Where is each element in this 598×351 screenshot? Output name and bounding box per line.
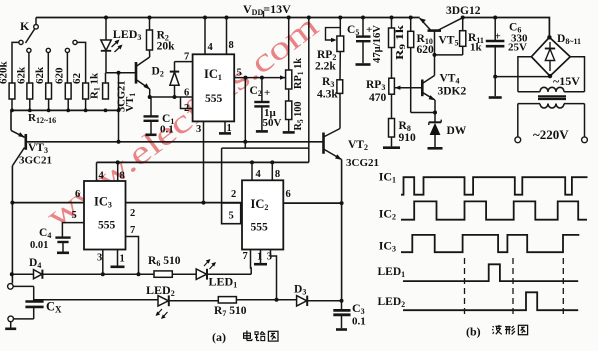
svg-text:620: 620 [54,67,66,84]
LED1 arrows [204,260,210,266]
wire x221.6 down to IC2 pin5 box [221,148,223,203]
wire pin5 node down to line A and y148 [244,78,246,149]
label LED3 [113,27,142,42]
pin 3 IC1 wire down [203,121,205,202]
pin 4 IC3 [96,162,98,181]
svg-text:IC1: IC1 [379,170,396,185]
wire VT2 emitter down [341,160,343,301]
resistor R1 1k [103,83,109,99]
wire LED2 line [34,299,158,301]
node probe terminal upper [8,284,14,290]
svg-text:8: 8 [229,40,234,51]
wire y148 segment [222,147,309,149]
label VDD=13V [243,2,291,17]
pin 3 IC3 wire down [102,250,104,275]
LED3 emission arrows [112,41,119,48]
svg-text:VT2: VT2 [348,139,368,152]
potentiometer RP1 1k [288,18,290,71]
svg-text:6: 6 [286,189,291,200]
svg-text:D8~11: D8~11 [557,33,581,46]
svg-text:(a): (a) [212,330,226,344]
IC U1 555 timer IC1 [193,54,235,121]
wire IC1 pin7 [175,61,193,63]
wire VT1 base to LED3/R1 node [106,72,136,74]
resistor R5 100 [288,89,290,101]
svg-text:IC3: IC3 [379,239,396,254]
waveform IC1 trace [401,177,588,195]
pin 8 IC3 [117,162,119,181]
svg-text:1: 1 [120,254,125,265]
wire primary left to plug [517,104,519,137]
svg-text:5: 5 [72,210,77,221]
pin 5 IC3 wire to C4 [62,223,84,237]
waveform LED1 trace [403,264,578,281]
resistor R2 20k [149,18,151,31]
svg-text:+: + [264,87,270,99]
svg-text:2: 2 [130,208,135,219]
svg-text:0.01: 0.01 [30,240,48,251]
svg-text:R5 100: R5 100 [292,101,305,130]
wire D4 line [10,272,14,276]
pin 5 IC1 wire [234,77,285,79]
wire bridge right AC [570,57,584,92]
wire contact to R12 [12,42,19,83]
svg-text:3CG21: 3CG21 [117,81,128,113]
waveform diagram section (b) [401,177,588,316]
potentiometer RP2 2.2k [339,18,341,37]
svg-text:R6 510: R6 510 [148,255,181,268]
wire contact to R14 [47,53,49,84]
wire VDD drop x308.8 [308,18,310,163]
svg-text:(b): (b) [466,325,481,339]
svg-text:3: 3 [97,253,102,264]
waveform IC3 trace [401,235,579,252]
diode D3 [297,296,307,306]
transistor VT3 3GC21 [10,110,12,130]
svg-text:5: 5 [229,211,234,222]
svg-text:4: 4 [256,169,262,180]
svg-text:8: 8 [120,171,125,182]
LED LED2 [158,296,168,306]
svg-text:4: 4 [99,171,105,182]
svg-text:47μ/16V: 47μ/16V [372,25,383,63]
pin 4 IC2 [251,162,253,180]
wire bridge DC- to C6 [495,76,550,78]
label R12~16 [28,112,56,125]
svg-text:620: 620 [417,44,435,56]
pin 6 IC2 wire to VT2 emitter [283,202,341,204]
diode D2 [174,62,176,72]
svg-text:4: 4 [208,42,214,53]
svg-text:R1 1k: R1 1k [89,72,102,99]
svg-text:C5: C5 [347,24,359,37]
svg-text:D4: D4 [29,257,41,270]
wire contact to R16 [77,42,86,83]
svg-text:K: K [20,19,30,33]
svg-text:VT4: VT4 [440,73,460,86]
svg-text:6: 6 [184,88,189,99]
svg-text:2: 2 [231,189,236,200]
wire VT2 collector up [339,93,341,128]
svg-text:C3: C3 [352,301,365,316]
svg-text:IC2: IC2 [379,207,396,222]
waveform IC2 trace [401,201,587,219]
pin 5 IC2 notch box [222,203,241,224]
wire base line VT3 to VT2 [26,141,324,143]
resistor R9 1k [391,18,393,29]
svg-text:4.3k: 4.3k [317,89,338,101]
transformer core [538,95,566,97]
resistor R8 910 [391,94,393,118]
svg-text:1k: 1k [470,42,483,54]
zener diode DW [434,113,436,123]
resistor R7 510 [218,297,236,303]
svg-text:620k: 620k [0,61,10,85]
wire resistor bank bottom bus [11,109,119,111]
svg-text:VT3: VT3 [28,142,48,155]
svg-text:62k: 62k [34,66,46,84]
capacitor CX [33,286,35,301]
svg-text:7: 7 [243,251,248,262]
resistor R12 value 620k [9,83,15,99]
wire contact to R13 [28,53,30,84]
transistor VT5 3DG12 [428,29,442,32]
svg-text:LED2: LED2 [146,283,175,298]
svg-text:0.1: 0.1 [160,124,174,136]
resistor R14 value 62k [46,83,52,99]
svg-text:3CG21: 3CG21 [346,157,379,169]
svg-text:CX: CX [46,300,62,315]
transistor VT1 3CG21 [135,62,138,84]
transformer primary winding [540,104,548,108]
pin 8 IC1 [226,18,228,55]
wire jog to IC1 pin2 [181,97,193,109]
svg-text:RP3: RP3 [366,79,385,92]
node VDD junction dots [104,16,108,20]
svg-text:3DK2: 3DK2 [438,86,467,98]
pin 7 IC3 wire down [126,237,139,275]
pin 6 IC3 wire to left rail [12,202,84,204]
svg-text:20k: 20k [157,41,176,53]
transistor VT4 3DK2 [421,80,424,97]
svg-text:LED1: LED1 [378,266,406,279]
capacitor C2 1u 50V [261,78,263,102]
capacitor C5 47u/16V [362,18,364,37]
svg-text:3: 3 [196,124,201,135]
pin 1 IC2 ground [260,250,262,264]
svg-text:2: 2 [184,103,189,114]
transformer secondary winding [518,91,540,93]
pin 2 IC3 wire to IC2 [126,202,243,204]
svg-text:7: 7 [184,52,189,63]
svg-text:555: 555 [205,93,223,105]
svg-text:R12~16: R12~16 [28,112,56,125]
switch K [35,18,37,25]
node VT1 emitter junction [148,95,152,99]
svg-text:910: 910 [399,132,417,144]
svg-text:R7 510: R7 510 [214,305,247,318]
pin 1 IC3 ground [117,250,119,266]
node switch contacts [19,40,23,44]
svg-text:D2: D2 [152,66,164,79]
wire to IC1 pin6 [150,96,193,98]
potentiometer RP3 470 [391,48,393,79]
svg-text:3: 3 [267,252,272,263]
svg-text:8: 8 [275,169,280,180]
svg-text:3GC21: 3GC21 [19,155,52,167]
svg-text:62k: 62k [15,66,27,84]
wire VDD rail left segment [36,17,420,19]
wire vertical x118.5 to line A [118,73,120,142]
svg-text:LED1: LED1 [209,275,238,290]
svg-text:555: 555 [98,220,116,232]
capacitor C4 0.01 [55,236,70,238]
svg-text:DW: DW [447,125,467,137]
LED2 arrows [157,309,163,315]
svg-text:2.2k: 2.2k [315,61,336,73]
capacitor C6 330 25V [494,18,496,41]
svg-text:3DG12: 3DG12 [446,5,481,17]
svg-text:C4: C4 [39,227,51,240]
pin 1 IC1 ground [224,121,226,132]
resistor R3 4.3k [339,52,341,80]
ground at lower terminal [10,322,12,328]
svg-text:50V: 50V [263,117,282,129]
resistor R10 620 [410,18,412,32]
node probe terminal lower [8,316,14,322]
IC U2 555 timer IC2 [242,180,283,249]
LED LED1 [196,269,206,279]
pin 7 IC2 wire to LED1 [250,250,253,275]
diode D4 [34,270,43,279]
svg-text:D3: D3 [294,284,306,297]
svg-text:VT5: VT5 [439,35,459,48]
resistor R13 value 62k [27,83,33,99]
svg-text:6: 6 [75,189,80,200]
capacitor C3 0.1 [340,299,344,303]
svg-text:~15V: ~15V [553,74,580,88]
wire contact to R15 [66,53,68,84]
svg-text:LED3: LED3 [113,27,142,42]
wire 4/8 supply bus [97,161,309,163]
watermark [40,8,326,236]
svg-text:~220V: ~220V [533,127,569,142]
pin 3 IC2 wire down [271,250,277,300]
IC U3 555 timer IC3 [84,181,126,250]
svg-text:VDD=13V: VDD=13V [243,2,291,17]
pin 4 IC1 [204,18,206,55]
timing dashed guide lines [464,258,466,317]
wire primary right to plug [584,104,586,137]
wire RP3 wiper to VT4 base [394,87,422,89]
wire VDD rail right segment [463,18,550,38]
resistor R11 1k [462,18,464,31]
svg-text:555: 555 [251,222,269,234]
svg-text:0.1: 0.1 [352,316,366,328]
svg-text:25V: 25V [508,42,527,54]
resistor R6 510 [154,271,172,277]
resistor R16 value 62 [83,83,89,99]
svg-text:R9 1k: R9 1k [395,25,407,60]
svg-text:62: 62 [71,73,83,85]
svg-text:1: 1 [257,252,262,263]
capacitor C1 0.1 [150,97,152,116]
svg-text:LED2: LED2 [378,296,406,309]
wire VDD label tick [263,11,265,18]
wire bridge left AC [518,57,532,92]
svg-text:470: 470 [369,92,387,104]
waveform LED2 trace [403,292,578,310]
wire VT5 base node [434,31,436,55]
LED LED3 [105,18,107,41]
bridge rectifier D8~11 [531,37,570,76]
svg-text:7: 7 [130,225,135,236]
transistor VT2 3CG21 [322,133,325,154]
pin 8 IC2 [271,162,273,180]
svg-text:C2: C2 [250,85,262,98]
svg-text:RP1 1k: RP1 1k [292,57,305,89]
resistor R15 value 620 [65,83,71,99]
svg-text:+: + [495,31,501,43]
svg-text:R3: R3 [322,76,334,89]
